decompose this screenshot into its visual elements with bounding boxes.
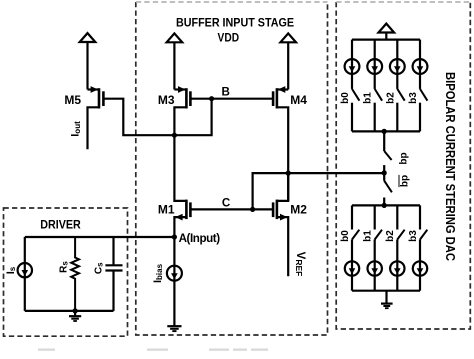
svg-text:A(Input): A(Input) [179,232,221,245]
switch bp-bar [384,173,392,206]
svg-text:M5: M5 [64,93,81,107]
svg-text:B: B [222,86,230,99]
node junction at M2/M4 drains [286,171,291,176]
label b1 top (rotated) [363,92,374,104]
label b1 bottom (rotated) [363,230,374,242]
svg-text:b0: b0 [340,230,351,242]
transistor M2 (NMOS mirrored) [273,173,288,276]
VDD arrow symbol above M3 [167,33,183,42]
DAC source branch b0 [345,40,360,132]
wire M3 source to VDD [173,42,175,89]
node A(Input) junction dot [172,234,177,239]
node junction lower rail center [382,203,387,208]
wire driver top rail to node A [25,236,175,238]
DAC sink branch b2 [390,205,405,290]
wire DAC VDD stem [385,32,387,39]
label DRIVER [40,217,81,231]
label b3 bottom (rotated) [408,230,419,242]
label b3 top (rotated) [408,92,419,104]
wire gate bus M3 to M4 (node B) [190,98,273,100]
transistor M3 (PMOS diode-connected) [174,86,190,135]
label b2 top (rotated) [385,92,396,104]
node junction DAC output [382,170,387,175]
label Rs (rotated) [59,261,70,273]
DAC source branch b3 [413,40,428,132]
ground (buffer) [167,326,181,331]
svg-text:b0: b0 [340,92,351,104]
DAC sink branch b0 [345,205,360,290]
label M1 [158,203,175,217]
wire gate bus M1 to M2 (node C) [190,208,273,210]
label M5 [64,93,81,107]
label Iout (rotated) [69,121,82,137]
label Cs (rotated) [93,262,104,274]
wire M3 diode connection to node B [174,99,211,136]
svg-text:Rs: Rs [59,261,70,273]
svg-text:b3: b3 [408,92,419,104]
label bp-bar (rotated) [400,175,411,187]
transistor M1 (NMOS) [174,135,190,237]
label Ibias (rotated) [152,263,164,283]
svg-text:b3: b3 [408,230,419,242]
caption fragment (cropped figure caption) [38,349,268,351]
svg-text:VDD: VDD [218,31,240,45]
svg-text:BIPOLAR CURRENT STERING DAC: BIPOLAR CURRENT STERING DAC [443,72,457,261]
svg-text:M3: M3 [158,93,175,107]
driver dashed box [4,208,128,336]
ground (driver) [69,311,81,321]
wire DAC upper bottom rail [352,130,420,132]
svg-text:DRIVER: DRIVER [40,217,81,231]
svg-text:Cs: Cs [93,262,104,274]
wire M1 source down to ground [173,237,175,326]
svg-text:b2: b2 [385,230,396,242]
DAC sink branch b3 [413,205,428,290]
resistor Rs [71,237,79,311]
VDD arrow symbol DAC [379,24,395,33]
label M2 [290,203,307,217]
node B junction dot [209,96,214,101]
label VDD [218,31,240,45]
node junction driver ground [73,308,78,313]
label bp (rotated) [399,152,410,164]
label VREF (rotated) [294,252,306,277]
wire DAC top rail [352,38,420,40]
wire output to DAC [288,172,384,174]
svg-text:M1: M1 [158,203,175,217]
node junction on gate bus [250,207,255,212]
wire M4 source to VDD [287,42,289,89]
label BUFFER INPUT STAGE [176,16,294,30]
bipolar DAC dashed box [336,2,470,329]
transistor M4 (PMOS mirrored) [273,86,288,201]
VDD arrow symbol above M5 [80,33,96,42]
svg-text:bp: bp [400,175,411,187]
wire DAC lower top rail [352,204,420,206]
DAC sink branch b1 [368,205,383,290]
buffer input stage dashed box [136,2,328,335]
label b0 bottom (rotated) [340,230,351,242]
svg-text:M4: M4 [290,93,307,107]
ground (DAC) [381,291,393,309]
VDD arrow symbol above M4 [280,33,296,42]
wire DAC bottom rail [352,290,420,292]
label M4 [290,93,307,107]
DAC source branch b2 [390,40,405,132]
svg-text:bp: bp [399,152,410,164]
svg-text:M2: M2 [290,203,307,217]
label Is (rotated) [5,266,17,274]
wire M5 gate to M3 drain junction [103,99,174,136]
node junction at M3 drain [172,133,177,138]
svg-text:C: C [222,196,231,209]
current source Is branch [18,237,32,311]
wire driver bottom rail [25,310,114,312]
svg-text:b1: b1 [363,230,374,242]
label C [222,196,231,209]
svg-text:BUFFER INPUT STAGE: BUFFER INPUT STAGE [176,16,294,30]
label b2 bottom (rotated) [385,230,396,242]
capacitor Cs [105,237,122,311]
label A(Input) [179,232,221,245]
current source Ibias [167,266,182,281]
transistor M5 (PMOS) [88,86,104,149]
svg-text:b2: b2 [385,92,396,104]
DAC source branch b1 [367,40,382,132]
node junction upper rail center [382,129,387,134]
svg-text:VREF: VREF [294,252,306,277]
label BIPOLAR CURRENT STERING DAC (rotated) [443,72,457,261]
label M3 [158,93,175,107]
switch bp [384,131,391,173]
wire M5 source to VDD [86,42,88,90]
svg-text:b1: b1 [363,92,374,104]
label B [222,86,230,99]
label b0 top (rotated) [340,92,351,104]
wire feedback M2 drain to gate [253,173,289,209]
